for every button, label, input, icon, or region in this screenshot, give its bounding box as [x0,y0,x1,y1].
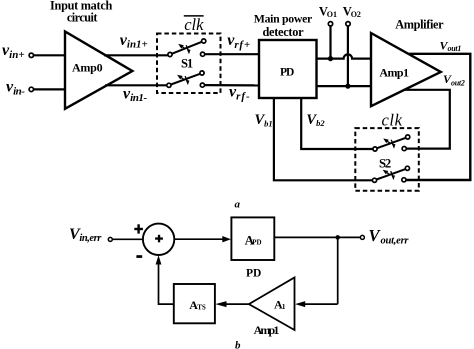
switch S2 lower [372,166,409,182]
switch S1 lower [167,71,205,88]
svg-text:TS: TS [197,303,206,311]
node Vin,err terminal circle [108,237,112,241]
wire S1 to PD (vrf+) [205,53,260,55]
svg-text:S2: S2 [379,157,391,171]
node VO2 terminal and stub [346,22,350,87]
label: Main power detector [254,11,313,39]
svg-text:PD: PD [252,239,261,247]
block PD [259,40,317,98]
svg-text:circuit: circuit [67,11,98,25]
wire Amp0 to S1 bottom (vin1-) [105,84,167,86]
switch box S1 (dashed) [157,34,221,94]
wire vin- to Amp0 [34,88,67,90]
junction dot VO2 on bottom wire [345,84,350,89]
svg-text:Amp1: Amp1 [379,65,409,79]
svg-text:O2: O2 [351,10,361,19]
wire Vout2 from Amp1 to S2 upper right [404,90,450,149]
wire A1 to ATS with arrow [215,301,249,307]
summer plus sign (input) [134,224,143,233]
wire APD to Vout,err [274,236,360,238]
svg-text:Main power: Main power [254,11,313,25]
summer plus sign (inside) [155,235,163,243]
op-amp Amp0 [65,32,132,109]
wire ATS to summer with up arrow [156,255,174,304]
wire S1 to PD (vrf-) [205,84,260,87]
junction dot feedback [335,235,340,240]
svg-text:PD: PD [280,66,294,78]
block ATS [174,284,215,323]
switch S2 upper [373,135,410,151]
summing junction circle [143,224,174,255]
wire summer to APD with arrow [174,236,231,242]
node Vout,err terminal circle [360,235,364,239]
clk-bar label for S1 [184,15,204,34]
svg-text:Amp1: Amp1 [254,323,280,337]
svg-text:detector: detector [262,25,304,39]
wire Vout1 from Amp1 to S2 lower right [406,54,470,180]
node VO1 terminal and stub [328,22,332,59]
svg-text:clk: clk [184,15,204,34]
block APD [231,217,274,260]
wire Vb2 from PD to S2 upper left [301,98,373,149]
wire feedback to A1 with arrow [295,301,338,307]
svg-text:a: a [235,199,241,211]
wire PD to Amp1 bottom [317,85,373,87]
switch S1 upper [168,39,206,57]
junction dot VO1 on top wire [328,56,333,61]
op-amp Amp1 [371,33,441,106]
wire Vin,err to summer [112,238,143,240]
node vin+ terminal circle [29,53,33,57]
wire vin+ to Amp0 [34,54,67,56]
svg-text:S1: S1 [181,57,193,71]
summer minus sign (feedback input) [136,255,142,258]
amplifier A1 (triangle pointing left) [249,278,295,331]
svg-text:Amplifier: Amplifier [395,17,444,31]
wire PD to Amp1 top (with hop over VO2 line) [317,54,373,58]
svg-text:Amp0: Amp0 [72,61,103,75]
wire Amp0 to S1 top (vin1+) [104,54,168,56]
label: Input match circuit [50,0,112,25]
wire Vb1 from PD to S2 lower left [274,98,373,180]
node vin- terminal circle [29,87,33,91]
svg-text:b: b [235,339,241,349]
svg-text:1: 1 [282,302,286,311]
switch box S2 (dashed) [355,128,419,191]
svg-text:O1: O1 [327,10,337,19]
svg-text:PD: PD [246,267,261,279]
svg-text:clk: clk [382,111,403,130]
wire feedback vertical from junction [337,237,339,304]
